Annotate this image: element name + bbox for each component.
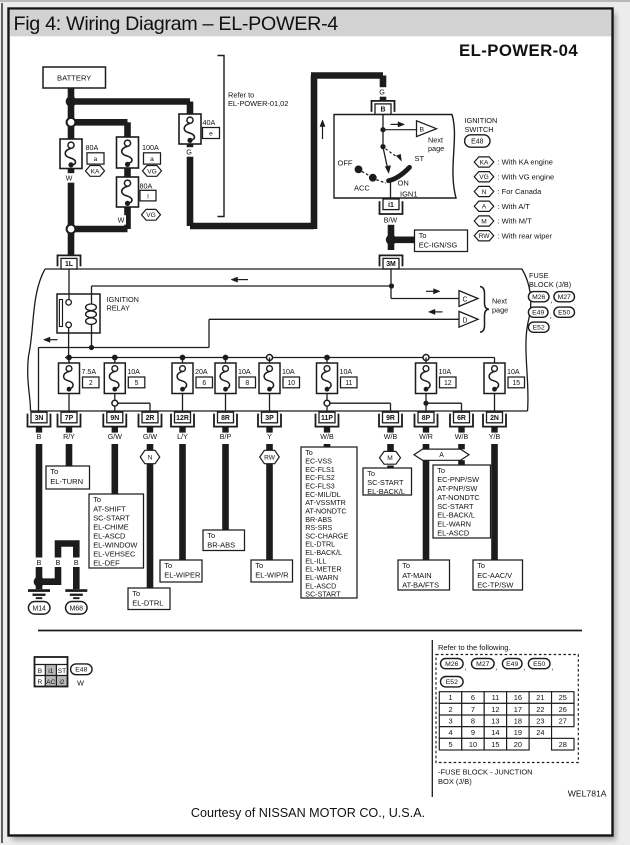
svg-text:2: 2 [89, 380, 93, 387]
svg-text:8R: 8R [221, 415, 230, 422]
svg-text:EL-CHIME: EL-CHIME [93, 522, 129, 531]
svg-text:2: 2 [448, 705, 452, 714]
svg-text:10A: 10A [340, 368, 353, 376]
svg-text:80A: 80A [86, 143, 99, 152]
svg-text:EL-DEF: EL-DEF [93, 559, 120, 568]
svg-text:W: W [77, 679, 84, 688]
svg-text:ACC: ACC [354, 183, 370, 192]
svg-text:AT-NONDTC: AT-NONDTC [437, 493, 480, 502]
svg-text:M: M [387, 455, 393, 462]
svg-text:4: 4 [448, 728, 452, 737]
svg-text:EC-TP/SW: EC-TP/SW [477, 580, 513, 589]
svg-text:80A: 80A [140, 181, 153, 190]
svg-text:: With A/T: : With A/T [498, 202, 531, 211]
svg-text:To: To [419, 231, 427, 240]
svg-text:E48: E48 [471, 138, 483, 145]
svg-text:B: B [37, 559, 42, 567]
svg-text:24: 24 [536, 728, 544, 737]
svg-text:Fig 4: Wiring Diagram – EL-POW: Fig 4: Wiring Diagram – EL-POWER-4 [14, 13, 339, 35]
svg-text:W/B: W/B [384, 433, 398, 441]
svg-text:e: e [209, 131, 213, 138]
svg-text:3M: 3M [386, 261, 396, 268]
svg-text:AT-SHIFT: AT-SHIFT [93, 504, 126, 513]
svg-text:A: A [439, 452, 444, 459]
svg-text:AT-BA/FTS: AT-BA/FTS [402, 580, 439, 589]
svg-text:SC-START: SC-START [437, 502, 474, 511]
svg-text:: With rear wiper: : With rear wiper [498, 231, 553, 240]
svg-text:19: 19 [514, 728, 522, 737]
svg-text:N: N [482, 189, 487, 196]
svg-text:EL-ASCD: EL-ASCD [93, 531, 126, 540]
svg-text:10A: 10A [439, 368, 452, 376]
svg-text:B: B [381, 107, 386, 114]
svg-text:i1: i1 [388, 202, 394, 209]
svg-text:IGNITION: IGNITION [465, 116, 498, 125]
svg-text:EC-AAC/V: EC-AAC/V [477, 571, 512, 580]
svg-text:KA: KA [91, 168, 100, 175]
svg-text:page: page [492, 305, 508, 314]
svg-text:M14: M14 [32, 605, 46, 612]
svg-text:: For Canada: : For Canada [498, 187, 543, 196]
svg-text:N: N [148, 454, 153, 461]
svg-text:16: 16 [514, 693, 522, 702]
svg-text:RW: RW [264, 454, 276, 461]
svg-text:EL-BACK/L: EL-BACK/L [367, 487, 405, 496]
svg-text:9N: 9N [110, 415, 119, 422]
svg-text:To: To [437, 466, 445, 475]
svg-text:: With VG engine: : With VG engine [498, 172, 555, 181]
svg-text:OFF: OFF [338, 158, 353, 167]
svg-text:W/B: W/B [455, 433, 469, 441]
svg-text:22: 22 [536, 705, 544, 714]
svg-text:EL-POWER-01,02: EL-POWER-01,02 [228, 99, 288, 108]
svg-text:RW: RW [479, 233, 491, 240]
svg-text:9R: 9R [386, 415, 395, 422]
svg-text:AC: AC [46, 679, 55, 686]
svg-text:EL-WIP/R: EL-WIP/R [255, 571, 289, 580]
svg-text:12: 12 [444, 380, 452, 387]
svg-text:5: 5 [448, 740, 452, 749]
svg-text:AT-PNP/SW: AT-PNP/SW [437, 484, 477, 493]
svg-text:7.5A: 7.5A [82, 368, 97, 376]
svg-text:Courtesy of NISSAN MOTOR CO.,: Courtesy of NISSAN MOTOR CO., U.S.A. [191, 806, 425, 820]
svg-text:10A: 10A [282, 368, 295, 376]
svg-text:Y: Y [267, 433, 272, 441]
svg-text:M: M [481, 218, 487, 225]
svg-text:C: C [463, 297, 468, 304]
svg-text:To: To [132, 589, 140, 598]
svg-text:18: 18 [514, 716, 522, 725]
svg-text:A: A [482, 204, 487, 211]
svg-text:W: W [66, 174, 73, 183]
svg-text:WEL781A: WEL781A [568, 789, 607, 799]
svg-text:M27: M27 [476, 661, 489, 668]
svg-text:8P: 8P [422, 415, 431, 422]
svg-text:10A: 10A [507, 368, 520, 376]
svg-text:M68: M68 [70, 605, 84, 612]
svg-text:3P: 3P [265, 415, 274, 422]
svg-text:10: 10 [469, 740, 477, 749]
svg-text:11: 11 [492, 693, 500, 702]
svg-text:B/P: B/P [220, 433, 232, 441]
svg-text:8: 8 [245, 380, 249, 387]
svg-text:7: 7 [471, 705, 475, 714]
svg-text:EL-TURN: EL-TURN [50, 477, 83, 486]
svg-text:VG: VG [147, 168, 157, 175]
svg-text:13: 13 [491, 716, 499, 725]
svg-text:SWITCH: SWITCH [465, 125, 494, 134]
svg-text:8: 8 [471, 716, 475, 725]
svg-text:G/W: G/W [143, 433, 157, 441]
svg-text:D: D [463, 317, 468, 324]
svg-text:28: 28 [559, 740, 567, 749]
svg-text:To: To [93, 495, 101, 504]
svg-text:B: B [38, 668, 42, 675]
svg-text:: With M/T: : With M/T [498, 217, 533, 226]
svg-text:AT-MAIN: AT-MAIN [402, 571, 431, 580]
svg-text:EL-ASCD: EL-ASCD [437, 529, 469, 538]
svg-text:G: G [186, 148, 192, 157]
svg-text:E52: E52 [446, 679, 458, 686]
svg-text:R/Y: R/Y [63, 433, 75, 441]
svg-text:3N: 3N [35, 415, 44, 422]
svg-text:5: 5 [135, 380, 139, 387]
svg-text:EC-PNP/SW: EC-PNP/SW [437, 475, 479, 484]
svg-text:27: 27 [559, 716, 567, 725]
svg-text:EL-WARN: EL-WARN [437, 520, 471, 529]
svg-text:,: , [550, 311, 552, 320]
svg-text:10: 10 [287, 380, 295, 387]
svg-text:BLOCK (J/B): BLOCK (J/B) [529, 280, 571, 289]
svg-text:i2: i2 [59, 679, 64, 686]
svg-text:,: , [523, 662, 525, 671]
svg-text:,: , [496, 662, 498, 671]
svg-text:EL-BACK/L: EL-BACK/L [437, 511, 475, 520]
svg-text:15: 15 [491, 740, 499, 749]
svg-text:EL-VEHSEC: EL-VEHSEC [93, 550, 136, 559]
svg-text:EL-POWER-04: EL-POWER-04 [459, 41, 578, 60]
svg-text:Next: Next [492, 297, 507, 306]
svg-text:To: To [50, 467, 58, 476]
svg-text:B: B [56, 559, 61, 567]
svg-text:IGN1: IGN1 [400, 189, 418, 198]
svg-text:KA: KA [480, 159, 489, 166]
svg-text:E50: E50 [533, 661, 545, 668]
svg-text:E49: E49 [506, 661, 518, 668]
svg-text:M27: M27 [558, 294, 571, 301]
svg-text:15: 15 [512, 380, 520, 387]
svg-text:a: a [94, 156, 98, 163]
svg-text:G/W: G/W [108, 433, 122, 441]
svg-text:E48: E48 [75, 667, 87, 674]
svg-text:6R: 6R [457, 415, 466, 422]
svg-text:E49: E49 [532, 310, 544, 317]
svg-text:SC-START: SC-START [305, 590, 341, 599]
svg-text:To: To [207, 531, 215, 540]
svg-text:RELAY: RELAY [107, 303, 131, 312]
svg-text:BR-ABS: BR-ABS [207, 540, 235, 549]
svg-text:SC-START: SC-START [93, 513, 130, 522]
svg-text:ST: ST [415, 154, 425, 163]
svg-text:To: To [402, 561, 410, 570]
svg-text:100A: 100A [142, 143, 159, 152]
svg-text:1: 1 [448, 693, 452, 702]
svg-text:EL-DTRL: EL-DTRL [132, 599, 163, 608]
svg-text:12: 12 [491, 705, 499, 714]
svg-text:W/R: W/R [419, 433, 433, 441]
svg-text:14: 14 [491, 728, 499, 737]
svg-text:Refer to the following.: Refer to the following. [438, 643, 511, 652]
svg-text:7P: 7P [65, 415, 74, 422]
svg-text:-FUSE BLOCK - JUNCTION: -FUSE BLOCK - JUNCTION [438, 768, 533, 777]
svg-text:FUSE: FUSE [529, 271, 549, 280]
svg-text:EL-WINDOW: EL-WINDOW [93, 540, 137, 549]
svg-text:L/Y: L/Y [177, 433, 188, 441]
svg-text:9: 9 [471, 728, 475, 737]
svg-text:,: , [550, 295, 552, 304]
svg-text:To: To [255, 561, 263, 570]
svg-text:,: , [465, 662, 467, 671]
svg-text:2R: 2R [146, 415, 155, 422]
svg-text:6: 6 [471, 693, 475, 702]
svg-text:: With KA engine: : With KA engine [498, 158, 553, 167]
svg-text:M26: M26 [445, 661, 458, 668]
svg-text:B: B [74, 559, 79, 567]
svg-text:21: 21 [536, 693, 544, 702]
svg-text:To: To [164, 561, 172, 570]
svg-text:10A: 10A [238, 368, 251, 376]
svg-text:EL-WIPER: EL-WIPER [164, 571, 201, 580]
svg-text:B: B [37, 433, 42, 441]
svg-text:i1: i1 [48, 668, 53, 675]
svg-text:G: G [379, 88, 385, 97]
svg-text:E50: E50 [558, 310, 570, 317]
svg-text:11P: 11P [321, 415, 333, 422]
svg-text:B/W: B/W [384, 216, 398, 224]
svg-text:ST: ST [58, 668, 66, 675]
svg-text:a: a [150, 156, 154, 163]
svg-text:,: , [552, 662, 554, 671]
svg-text:EC-IGN/SG: EC-IGN/SG [419, 241, 458, 250]
svg-text:11: 11 [345, 380, 352, 387]
svg-text:M26: M26 [532, 294, 545, 301]
svg-text:ON: ON [398, 178, 409, 187]
svg-text:W: W [118, 216, 125, 225]
svg-text:Y/B: Y/B [489, 433, 501, 441]
svg-text:To: To [477, 561, 485, 570]
svg-text:12R: 12R [176, 415, 189, 422]
svg-text:B: B [420, 126, 425, 133]
svg-text:3: 3 [448, 716, 452, 725]
svg-text:20: 20 [514, 740, 522, 749]
svg-text:R: R [38, 679, 43, 686]
svg-text:BATTERY: BATTERY [57, 73, 91, 82]
svg-text:25: 25 [559, 693, 567, 702]
svg-text:26: 26 [559, 705, 567, 714]
svg-text:1L: 1L [65, 261, 73, 268]
svg-text:E52: E52 [533, 325, 545, 332]
svg-text:VG: VG [479, 174, 489, 181]
svg-text:17: 17 [514, 705, 522, 714]
svg-text:23: 23 [536, 716, 544, 725]
svg-text:page: page [428, 144, 444, 153]
svg-text:VG: VG [146, 212, 156, 219]
svg-text:40A: 40A [203, 118, 216, 127]
svg-text:W/B: W/B [320, 433, 334, 441]
svg-text:10A: 10A [127, 368, 140, 376]
svg-text:6: 6 [202, 380, 206, 387]
svg-text:SC-START: SC-START [367, 478, 404, 487]
svg-text:2N: 2N [490, 415, 499, 422]
svg-text:BOX (J/B): BOX (J/B) [438, 777, 472, 786]
svg-text:To: To [367, 469, 375, 478]
svg-text:20A: 20A [195, 368, 208, 376]
